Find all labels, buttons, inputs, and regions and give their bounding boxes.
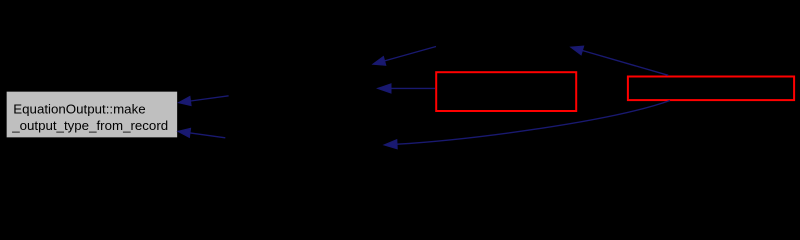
- svg-text:_output_type_from_record: _output_type_from_record: [11, 118, 168, 133]
- edge M1 to A: [191, 96, 229, 101]
- edge M2 to A: [190, 133, 225, 138]
- edge R2 to M2 curve: [397, 101, 670, 145]
- edge V1 to M1: [385, 47, 436, 61]
- svg-text:EquationOutput::make: EquationOutput::make: [13, 102, 145, 117]
- node R1: red-bordered caller box: [436, 72, 576, 111]
- edge R1 to M1: [391, 87, 435, 89]
- node A: EquationOutput::make_output_type_from_record (current node, grey fill): [6, 91, 178, 138]
- node R2: red-bordered caller box: [628, 77, 794, 101]
- edge R2 to V1: [582, 51, 668, 76]
